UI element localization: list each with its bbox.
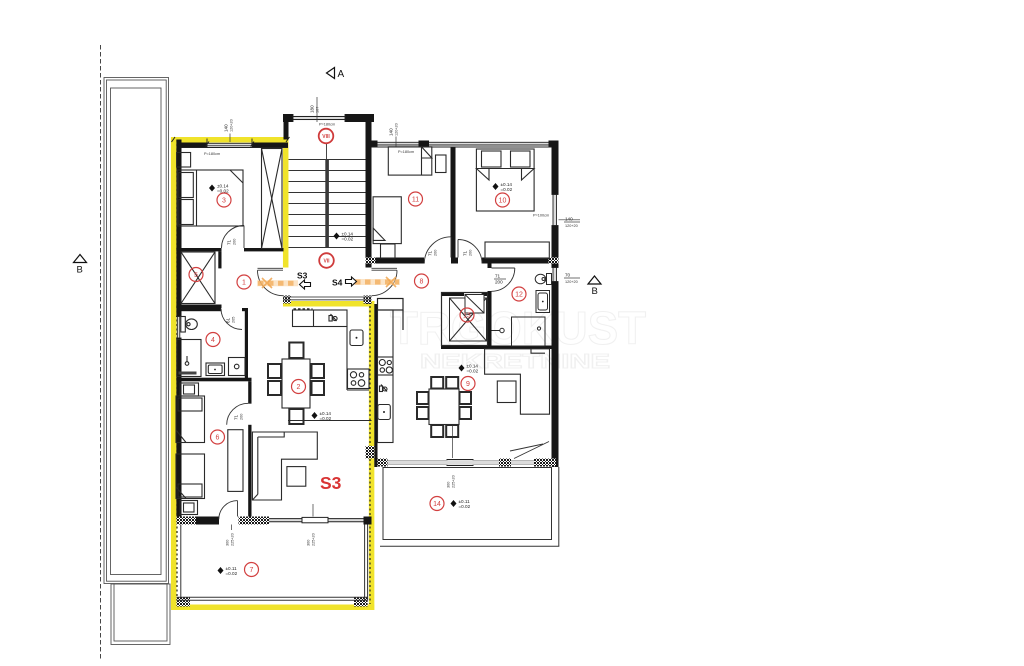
svg-text:70: 70 bbox=[565, 273, 571, 278]
door bathroom13 arc bbox=[464, 297, 482, 315]
top wall right apt window 1 bbox=[378, 141, 419, 143]
door room3 arc bbox=[222, 226, 245, 249]
svg-text:71: 71 bbox=[428, 250, 433, 256]
room5 top wall bbox=[176, 248, 221, 251]
S3 right wall bottom checker bbox=[366, 446, 375, 459]
label VII bbox=[319, 253, 334, 268]
svg-text:6: 6 bbox=[216, 435, 220, 442]
bathroom4 toilet tank bbox=[181, 317, 186, 333]
corridor wall checker left bbox=[366, 258, 376, 264]
svg-text:3: 3 bbox=[222, 198, 226, 205]
room11 bed top bbox=[388, 147, 432, 175]
svg-text:10: 10 bbox=[499, 198, 507, 205]
svg-text:B: B bbox=[77, 265, 83, 276]
wall hallway-bathroom13 vertical bbox=[488, 264, 492, 269]
svg-text:=0.02: =0.02 bbox=[459, 504, 471, 509]
stair bottom wall gray lines bbox=[283, 297, 372, 300]
yellow left wall bbox=[171, 137, 177, 610]
door room12 arc bbox=[492, 268, 515, 291]
svg-text:9: 9 bbox=[466, 381, 470, 388]
room6 nightstand top bbox=[180, 383, 199, 396]
elev kitchen bbox=[312, 412, 318, 419]
elev room3 bbox=[209, 185, 215, 192]
label 7 bbox=[245, 563, 259, 577]
dashed property line bbox=[100, 45, 102, 659]
room9 sofa bbox=[485, 349, 550, 414]
svg-text:61: 61 bbox=[226, 317, 231, 323]
yellow stair-left wall lower bbox=[283, 296, 289, 303]
top wall right apt window 2 bbox=[429, 141, 549, 143]
room11 nightstand right bbox=[436, 155, 447, 173]
interior face line of top wall room3 bbox=[182, 147, 289, 149]
right wall window room10 bbox=[552, 195, 554, 226]
svg-text:11: 11 bbox=[412, 197, 419, 204]
living zone line bbox=[288, 420, 372, 422]
stair right wall upper bbox=[366, 114, 372, 268]
bathroom13 sink box bbox=[465, 295, 484, 314]
svg-text:120+20: 120+20 bbox=[230, 119, 234, 132]
r-apt stove bbox=[378, 356, 394, 358]
elev room9 bbox=[459, 365, 465, 372]
wall top room3 right segment bbox=[252, 143, 288, 148]
room6 nightstand bottom bbox=[180, 501, 198, 515]
corridor wall checker right bbox=[549, 258, 559, 264]
svg-text:300: 300 bbox=[226, 540, 230, 546]
room5 closet box with X bbox=[181, 252, 215, 304]
svg-text:B: B bbox=[592, 286, 598, 297]
right wall segment 1 bbox=[552, 141, 559, 195]
room10 furniture bbox=[373, 147, 549, 259]
section arrow A (top) bbox=[327, 68, 335, 79]
svg-text:225+20: 225+20 bbox=[312, 533, 316, 546]
svg-text:71: 71 bbox=[234, 414, 239, 420]
label 14 bbox=[430, 497, 444, 511]
label 5 bbox=[189, 268, 203, 282]
svg-text:P=100cm: P=100cm bbox=[533, 214, 549, 218]
svg-text:200: 200 bbox=[240, 414, 244, 420]
svg-text:4: 4 bbox=[211, 337, 215, 344]
svg-text:5: 5 bbox=[194, 272, 198, 279]
svg-text:2: 2 bbox=[297, 384, 301, 391]
bathroom4 top wall segments bbox=[182, 308, 222, 311]
svg-text:300: 300 bbox=[447, 482, 451, 488]
living bottom wall corner seg bbox=[364, 517, 372, 525]
S3 section arrow (hollow, pointing left) bbox=[300, 280, 311, 289]
label 1 bbox=[237, 275, 251, 289]
terrace7 parapet lines bbox=[177, 525, 368, 601]
room12 washing machine bbox=[512, 317, 546, 346]
svg-text:NEKRETNINE: NEKRETNINE bbox=[420, 351, 610, 373]
door room10 arc bbox=[458, 240, 482, 264]
red room labels bbox=[189, 129, 526, 577]
room6 right wall upper bbox=[248, 381, 251, 403]
orange section arrows bbox=[257, 282, 400, 283]
svg-text:7: 7 bbox=[250, 567, 254, 574]
elevation diamonds bbox=[209, 182, 513, 576]
section arrow B (left) bbox=[74, 255, 87, 263]
room12 fixtures bbox=[492, 274, 552, 347]
right wall segment 2 bbox=[552, 226, 559, 268]
wall left upper segment bbox=[176, 140, 181, 317]
corridor wall between doors bbox=[451, 258, 458, 264]
terrace14 parapet bbox=[380, 467, 559, 546]
svg-text:VII: VII bbox=[323, 259, 330, 265]
window lines: left wall bathroom4 bbox=[176, 317, 178, 339]
svg-text:P=180cm: P=180cm bbox=[319, 123, 335, 127]
svg-text:13: 13 bbox=[463, 313, 471, 320]
svg-text:P=180cm: P=180cm bbox=[204, 152, 220, 156]
svg-text:140: 140 bbox=[389, 128, 394, 136]
svg-text:=0.02: =0.02 bbox=[217, 188, 229, 193]
right wall segment 3 bbox=[552, 282, 559, 468]
corridor wall rooms 10-11 segment a bbox=[376, 258, 425, 264]
room6 top wall bbox=[176, 378, 251, 382]
label 3 bbox=[217, 193, 231, 207]
svg-text:A: A bbox=[338, 69, 345, 80]
top wall right apartment mid block bbox=[419, 141, 430, 148]
elev room10 bbox=[493, 183, 499, 190]
dining2 chairs bbox=[289, 343, 303, 359]
svg-text:S3: S3 bbox=[297, 271, 308, 281]
interior face line top wall right apt bbox=[372, 146, 552, 148]
svg-text:14: 14 bbox=[433, 501, 441, 508]
kitchen stove bbox=[348, 369, 370, 389]
room3 bottom wall bbox=[244, 248, 284, 251]
dimension texts bbox=[204, 97, 580, 546]
label 8 bbox=[415, 274, 429, 288]
door room6 arc bbox=[227, 403, 249, 425]
terrace7 corner blocks bbox=[177, 597, 191, 607]
living coffee table bbox=[287, 467, 306, 487]
svg-text:107: 107 bbox=[316, 107, 320, 113]
room5-room4 wall bbox=[176, 305, 221, 309]
door bathroom4 arc bbox=[221, 309, 242, 330]
yellow stair bottom wall bbox=[283, 301, 374, 307]
living bottom wall sliding window bbox=[269, 517, 364, 522]
stair left wall upper black bbox=[284, 122, 289, 140]
room5 right short wall bbox=[218, 251, 221, 268]
svg-text:200: 200 bbox=[495, 280, 503, 285]
room12 washbasin bbox=[536, 291, 550, 313]
svg-text:225+20: 225+20 bbox=[452, 475, 456, 488]
svg-text:180: 180 bbox=[310, 105, 315, 113]
bathroom13 fixtures bbox=[442, 293, 488, 346]
room3 closet box with X bbox=[262, 149, 283, 249]
label 13 bbox=[460, 308, 474, 322]
room6 right wall lower bbox=[248, 425, 251, 520]
room9 coffee table bbox=[497, 381, 516, 403]
stair treads bbox=[289, 160, 366, 248]
svg-text:1: 1 bbox=[242, 280, 246, 287]
svg-text:VIII: VIII bbox=[322, 134, 330, 140]
svg-text:200: 200 bbox=[233, 239, 237, 245]
room6 wardrobe bbox=[228, 430, 243, 492]
S3 right wall inner black bbox=[374, 304, 377, 467]
bathroom13 / room9 bottom wall bbox=[441, 346, 552, 350]
room10 low cabinet bbox=[485, 242, 549, 259]
svg-text:200: 200 bbox=[434, 250, 438, 256]
stair stringer bbox=[325, 160, 329, 248]
room9 bottom wall window segment lines bbox=[388, 460, 535, 466]
kitchen faucet icon bbox=[329, 316, 332, 322]
label 6 bbox=[211, 430, 225, 444]
dimension tick slashes top wall bbox=[172, 137, 290, 147]
bathroom4 washbasin bbox=[206, 363, 225, 376]
svg-text:120+20: 120+20 bbox=[565, 280, 578, 284]
right apartment kitchen bbox=[378, 310, 394, 443]
dining2 table bbox=[282, 359, 310, 408]
gray window underlays bbox=[177, 116, 556, 522]
room3 pillow 1 bbox=[179, 173, 194, 198]
bathroom4 right wall bbox=[245, 308, 248, 381]
room3 headboard line bbox=[196, 170, 198, 226]
elev stairs bbox=[334, 233, 340, 240]
room9 dining table bbox=[417, 377, 471, 437]
stair bottom wall corner blocks bbox=[283, 296, 291, 304]
room10 bed bbox=[476, 149, 534, 211]
label 2 bbox=[292, 380, 306, 394]
elev terrace14 bbox=[451, 500, 457, 507]
wall left lower segment bbox=[176, 338, 181, 525]
svg-text:12: 12 bbox=[515, 292, 523, 299]
yellow right wall bbox=[369, 301, 375, 605]
checkered wall blocks bbox=[177, 258, 559, 607]
label 10 bbox=[496, 193, 510, 207]
divider wall rooms 11-10 bbox=[451, 147, 456, 258]
room3 bed bbox=[178, 170, 244, 226]
svg-text:=0.02: =0.02 bbox=[342, 236, 354, 241]
svg-text:200: 200 bbox=[469, 250, 473, 256]
svg-text:71: 71 bbox=[495, 274, 501, 279]
top wall right apartment junction block bbox=[372, 141, 378, 148]
svg-text:=0.02: =0.02 bbox=[320, 416, 332, 421]
room11 nightstand bottom bbox=[381, 244, 396, 258]
right apt nook walls bbox=[378, 299, 404, 331]
yellow highlight outline of apartment S3 bbox=[171, 137, 374, 610]
svg-text:=0.02: =0.02 bbox=[467, 368, 479, 373]
corridor wall segment b bbox=[482, 258, 549, 264]
room3 nightstand bbox=[177, 153, 191, 168]
stair top wall hatch left bbox=[283, 114, 293, 122]
door S3 entrance arc bbox=[258, 270, 284, 296]
svg-text:205: 205 bbox=[232, 317, 236, 323]
lower left annex walls bbox=[111, 584, 170, 645]
svg-text:120+20: 120+20 bbox=[395, 123, 399, 136]
S3 kitchen bbox=[293, 309, 370, 390]
svg-text:140: 140 bbox=[565, 217, 573, 222]
room3 pillow 2 bbox=[179, 200, 194, 225]
section arrow B (right) bbox=[588, 276, 601, 284]
living bottom wall checker 2 bbox=[239, 517, 270, 525]
r-apt faucet icon bbox=[380, 386, 383, 392]
room11 bed left bbox=[373, 197, 401, 244]
svg-text:71: 71 bbox=[463, 250, 468, 256]
stair top wall window bbox=[293, 116, 345, 118]
label VIII bbox=[319, 129, 334, 144]
room9 bottom wall checker bbox=[499, 459, 511, 467]
door S4 entrance arc bbox=[372, 270, 398, 296]
wall top room3 left segment bbox=[177, 143, 208, 148]
svg-text:=0.02: =0.02 bbox=[226, 571, 238, 576]
room6 bed 1 bbox=[176, 396, 205, 443]
living bottom wall checker 1 bbox=[177, 517, 197, 525]
bathroom4 bathtub bbox=[177, 340, 201, 377]
svg-text:140: 140 bbox=[224, 124, 229, 132]
label 12 bbox=[512, 287, 526, 301]
kitchen fridge bbox=[350, 330, 363, 346]
stair direction line bbox=[326, 144, 328, 160]
hatch dashes over yellow left wall bbox=[176, 140, 178, 601]
door S3 entrance leaf bbox=[258, 267, 284, 269]
kitchen right counter bbox=[346, 327, 348, 391]
svg-text:=0.02: =0.02 bbox=[501, 187, 513, 192]
bathroom13 tub with X bbox=[450, 298, 487, 341]
label 9 bbox=[461, 377, 475, 391]
bathroom4 toilet bowl bbox=[186, 319, 198, 330]
svg-text:120+20: 120+20 bbox=[565, 224, 578, 228]
svg-text:P=180cm: P=180cm bbox=[398, 150, 414, 154]
door S4 entrance leaf bbox=[372, 267, 398, 269]
svg-text:S4: S4 bbox=[332, 278, 343, 288]
door room6-terrace arc bbox=[219, 501, 238, 520]
yellow bottom wall bbox=[171, 604, 374, 610]
label 4 bbox=[206, 333, 220, 347]
stair top wall hatch right bbox=[345, 114, 374, 122]
living sofa L-shape bbox=[252, 432, 317, 500]
kitchen counter top bbox=[293, 310, 348, 327]
room3 bed fold bbox=[230, 170, 243, 183]
svg-text:S3: S3 bbox=[320, 473, 342, 493]
window lines: top wall room3 bbox=[176, 114, 559, 338]
svg-text:8: 8 bbox=[420, 279, 424, 286]
top wall right apartment right block bbox=[549, 141, 559, 148]
elev terrace7 bbox=[218, 567, 224, 574]
yellow stair-left wall upper bbox=[283, 137, 289, 268]
watermark bbox=[390, 302, 646, 373]
right wall window room12 bbox=[552, 268, 554, 282]
svg-text:71: 71 bbox=[227, 239, 232, 245]
S4 section arrow (hollow, pointing right) bbox=[346, 277, 357, 286]
yellow top wall bbox=[171, 137, 289, 143]
r-apt fridge bbox=[378, 405, 391, 420]
stair right wall lower bbox=[366, 296, 372, 304]
svg-text:225+20: 225+20 bbox=[231, 533, 235, 546]
svg-text:300: 300 bbox=[307, 540, 311, 546]
left balcony outer rect bbox=[104, 78, 169, 584]
living bottom wall solid seg bbox=[196, 517, 219, 525]
bathroom4 washing machine bbox=[229, 358, 246, 376]
door room11 arc bbox=[424, 237, 451, 264]
hatch dashes over yellow right wall bbox=[369, 306, 371, 604]
bathroom13 top wall bbox=[441, 292, 464, 296]
terrace9 door diagonals bbox=[514, 442, 549, 459]
label 11 bbox=[409, 192, 423, 206]
room12 toilet bbox=[547, 274, 552, 285]
room6 bed 2 bbox=[176, 454, 205, 499]
